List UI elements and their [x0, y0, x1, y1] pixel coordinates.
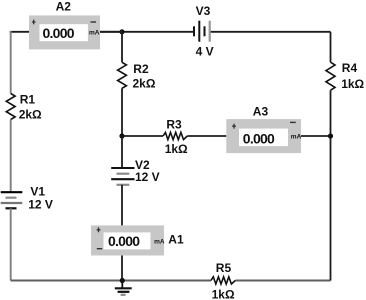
resistor R4 [326, 62, 335, 90]
svg-text:A2: A2 [56, 0, 72, 14]
battery V3 [194, 21, 210, 42]
ammeter A1 plus terminal mark [97, 227, 101, 232]
svg-text:1kΩ: 1kΩ [341, 77, 364, 91]
svg-text:V1: V1 [30, 184, 45, 198]
svg-text:A1: A1 [168, 233, 184, 247]
wire A2 minus terminal to top junction [100, 31, 122, 33]
svg-text:R4: R4 [342, 61, 358, 75]
wire right rail lower segment [330, 90, 332, 280]
svg-text:A3: A3 [253, 105, 269, 119]
svg-text:mA: mA [89, 29, 100, 36]
wire from left rail to A2 + terminal [10, 31, 29, 33]
svg-text:mA: mA [154, 239, 165, 246]
ammeter A3 plus terminal mark [232, 124, 236, 129]
svg-text:2kΩ: 2kΩ [133, 77, 156, 91]
wire A1 minus terminal down to ground node [121, 256, 123, 281]
ammeter A1 body [91, 225, 164, 255]
ammeter A3 body [226, 119, 301, 153]
wire bottom rail right segment [236, 280, 331, 282]
ammeter A2 minus terminal mark [91, 21, 97, 23]
ammeter A1 minus terminal mark [97, 248, 102, 250]
resistor R5 [211, 277, 236, 284]
resistor R2 [118, 62, 127, 88]
resistor R1 [6, 94, 15, 120]
wire left rail lower segment [10, 208, 12, 280]
wire middle node to R3 [122, 135, 163, 137]
svg-text:R2: R2 [133, 62, 149, 76]
node junction top rail / R2 branch [119, 29, 124, 34]
svg-text:mA: mA [291, 133, 302, 140]
ammeter A2 plus terminal mark [32, 20, 36, 25]
wire bottom rail left segment [11, 280, 211, 282]
ground [115, 281, 132, 295]
svg-text:4 V: 4 V [196, 45, 214, 59]
wire top rail middle segment (A2 to V3) [100, 31, 194, 33]
svg-text:R5: R5 [216, 261, 232, 275]
svg-text:0.000: 0.000 [243, 131, 275, 147]
svg-text:R1: R1 [20, 92, 36, 106]
svg-text:1kΩ: 1kΩ [165, 142, 188, 156]
wire R2 down to middle node [121, 88, 123, 136]
svg-text:R3: R3 [166, 117, 182, 131]
svg-text:12 V: 12 V [135, 170, 160, 184]
battery V1 [1, 192, 23, 208]
wire right rail upper segment [330, 32, 332, 62]
node junction bottom rail / ground [120, 278, 125, 283]
wire V2 down to A1 + terminal [121, 185, 123, 226]
ammeter A3 minus terminal mark [290, 121, 296, 123]
svg-text:0.000: 0.000 [43, 25, 75, 41]
wire junction down to R2 [121, 32, 123, 63]
svg-text:12 V: 12 V [28, 197, 53, 211]
ammeter A2 display window [40, 24, 88, 41]
ammeter A1 display window [104, 232, 151, 249]
svg-text:1kΩ: 1kΩ [212, 288, 235, 300]
svg-text:V3: V3 [196, 4, 211, 18]
ammeter A2 body [29, 15, 100, 49]
node junction middle (R2 / R3 / V2) [119, 133, 124, 138]
resistor R3 [163, 132, 187, 139]
wire left rail upper segment [10, 31, 12, 94]
wire R3 to A3 + terminal [187, 135, 226, 137]
wire top rail right segment [210, 31, 331, 33]
svg-text:2kΩ: 2kΩ [19, 108, 42, 122]
ammeter A3 display window [239, 129, 288, 147]
wire left rail middle segment [10, 120, 12, 193]
svg-text:0.000: 0.000 [108, 233, 140, 249]
battery V2 [111, 168, 134, 185]
wire A3 minus terminal to right rail [301, 135, 331, 137]
node junction right rail / A3 branch [328, 133, 333, 138]
wire middle node down to V2 [121, 136, 123, 168]
